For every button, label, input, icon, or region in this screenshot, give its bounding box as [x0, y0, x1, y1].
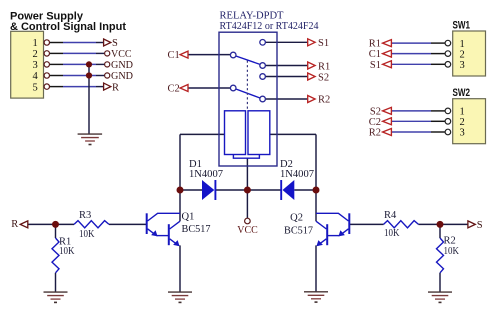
svg-text:10K: 10K [59, 246, 75, 257]
svg-text:C1: C1 [168, 50, 180, 61]
svg-text:1N4007: 1N4007 [189, 169, 223, 180]
svg-text:SW2: SW2 [453, 87, 471, 99]
svg-text:S: S [112, 38, 118, 49]
svg-text:& Control Signal Input: & Control Signal Input [10, 21, 126, 33]
svg-text:C2: C2 [168, 84, 180, 95]
svg-text:RT424F12 or RT424F24: RT424F12 or RT424F24 [220, 21, 320, 32]
svg-text:3: 3 [460, 60, 465, 71]
svg-text:2: 2 [460, 49, 465, 60]
svg-text:VCC: VCC [237, 225, 258, 236]
svg-text:S: S [477, 220, 483, 231]
svg-text:2: 2 [460, 117, 465, 128]
svg-text:GND: GND [111, 60, 133, 71]
svg-text:Q1: Q1 [182, 211, 195, 222]
svg-text:BC517: BC517 [284, 226, 313, 237]
svg-text:1: 1 [32, 38, 37, 49]
svg-text:R2: R2 [444, 235, 456, 246]
svg-text:10K: 10K [79, 229, 95, 240]
svg-text:S1: S1 [318, 38, 329, 49]
svg-text:3: 3 [460, 128, 465, 139]
svg-text:SW1: SW1 [453, 20, 471, 32]
svg-text:R2: R2 [369, 128, 381, 139]
svg-text:R: R [11, 219, 18, 230]
svg-text:R1: R1 [369, 39, 381, 50]
svg-text:10K: 10K [444, 246, 460, 257]
svg-text:3: 3 [32, 60, 37, 71]
svg-text:GND: GND [111, 71, 133, 82]
svg-text:5: 5 [32, 82, 37, 93]
svg-text:BC517: BC517 [182, 224, 211, 235]
svg-text:R4: R4 [384, 210, 397, 221]
svg-text:S2: S2 [370, 106, 381, 117]
svg-text:R3: R3 [79, 210, 91, 221]
svg-text:10K: 10K [384, 228, 400, 239]
svg-text:C1: C1 [369, 49, 381, 60]
svg-text:R1: R1 [318, 61, 330, 72]
svg-text:Q2: Q2 [290, 212, 303, 223]
svg-text:R: R [112, 82, 119, 93]
svg-text:2: 2 [32, 49, 37, 60]
svg-text:1N4007: 1N4007 [280, 169, 314, 180]
svg-text:VCC: VCC [111, 49, 132, 60]
svg-text:S2: S2 [318, 72, 329, 83]
svg-text:C2: C2 [369, 117, 381, 128]
svg-text:1: 1 [460, 39, 465, 50]
svg-text:R2: R2 [318, 94, 330, 105]
svg-text:S1: S1 [370, 60, 381, 71]
svg-text:RELAY-DPDT: RELAY-DPDT [220, 11, 285, 22]
svg-text:1: 1 [460, 107, 465, 118]
